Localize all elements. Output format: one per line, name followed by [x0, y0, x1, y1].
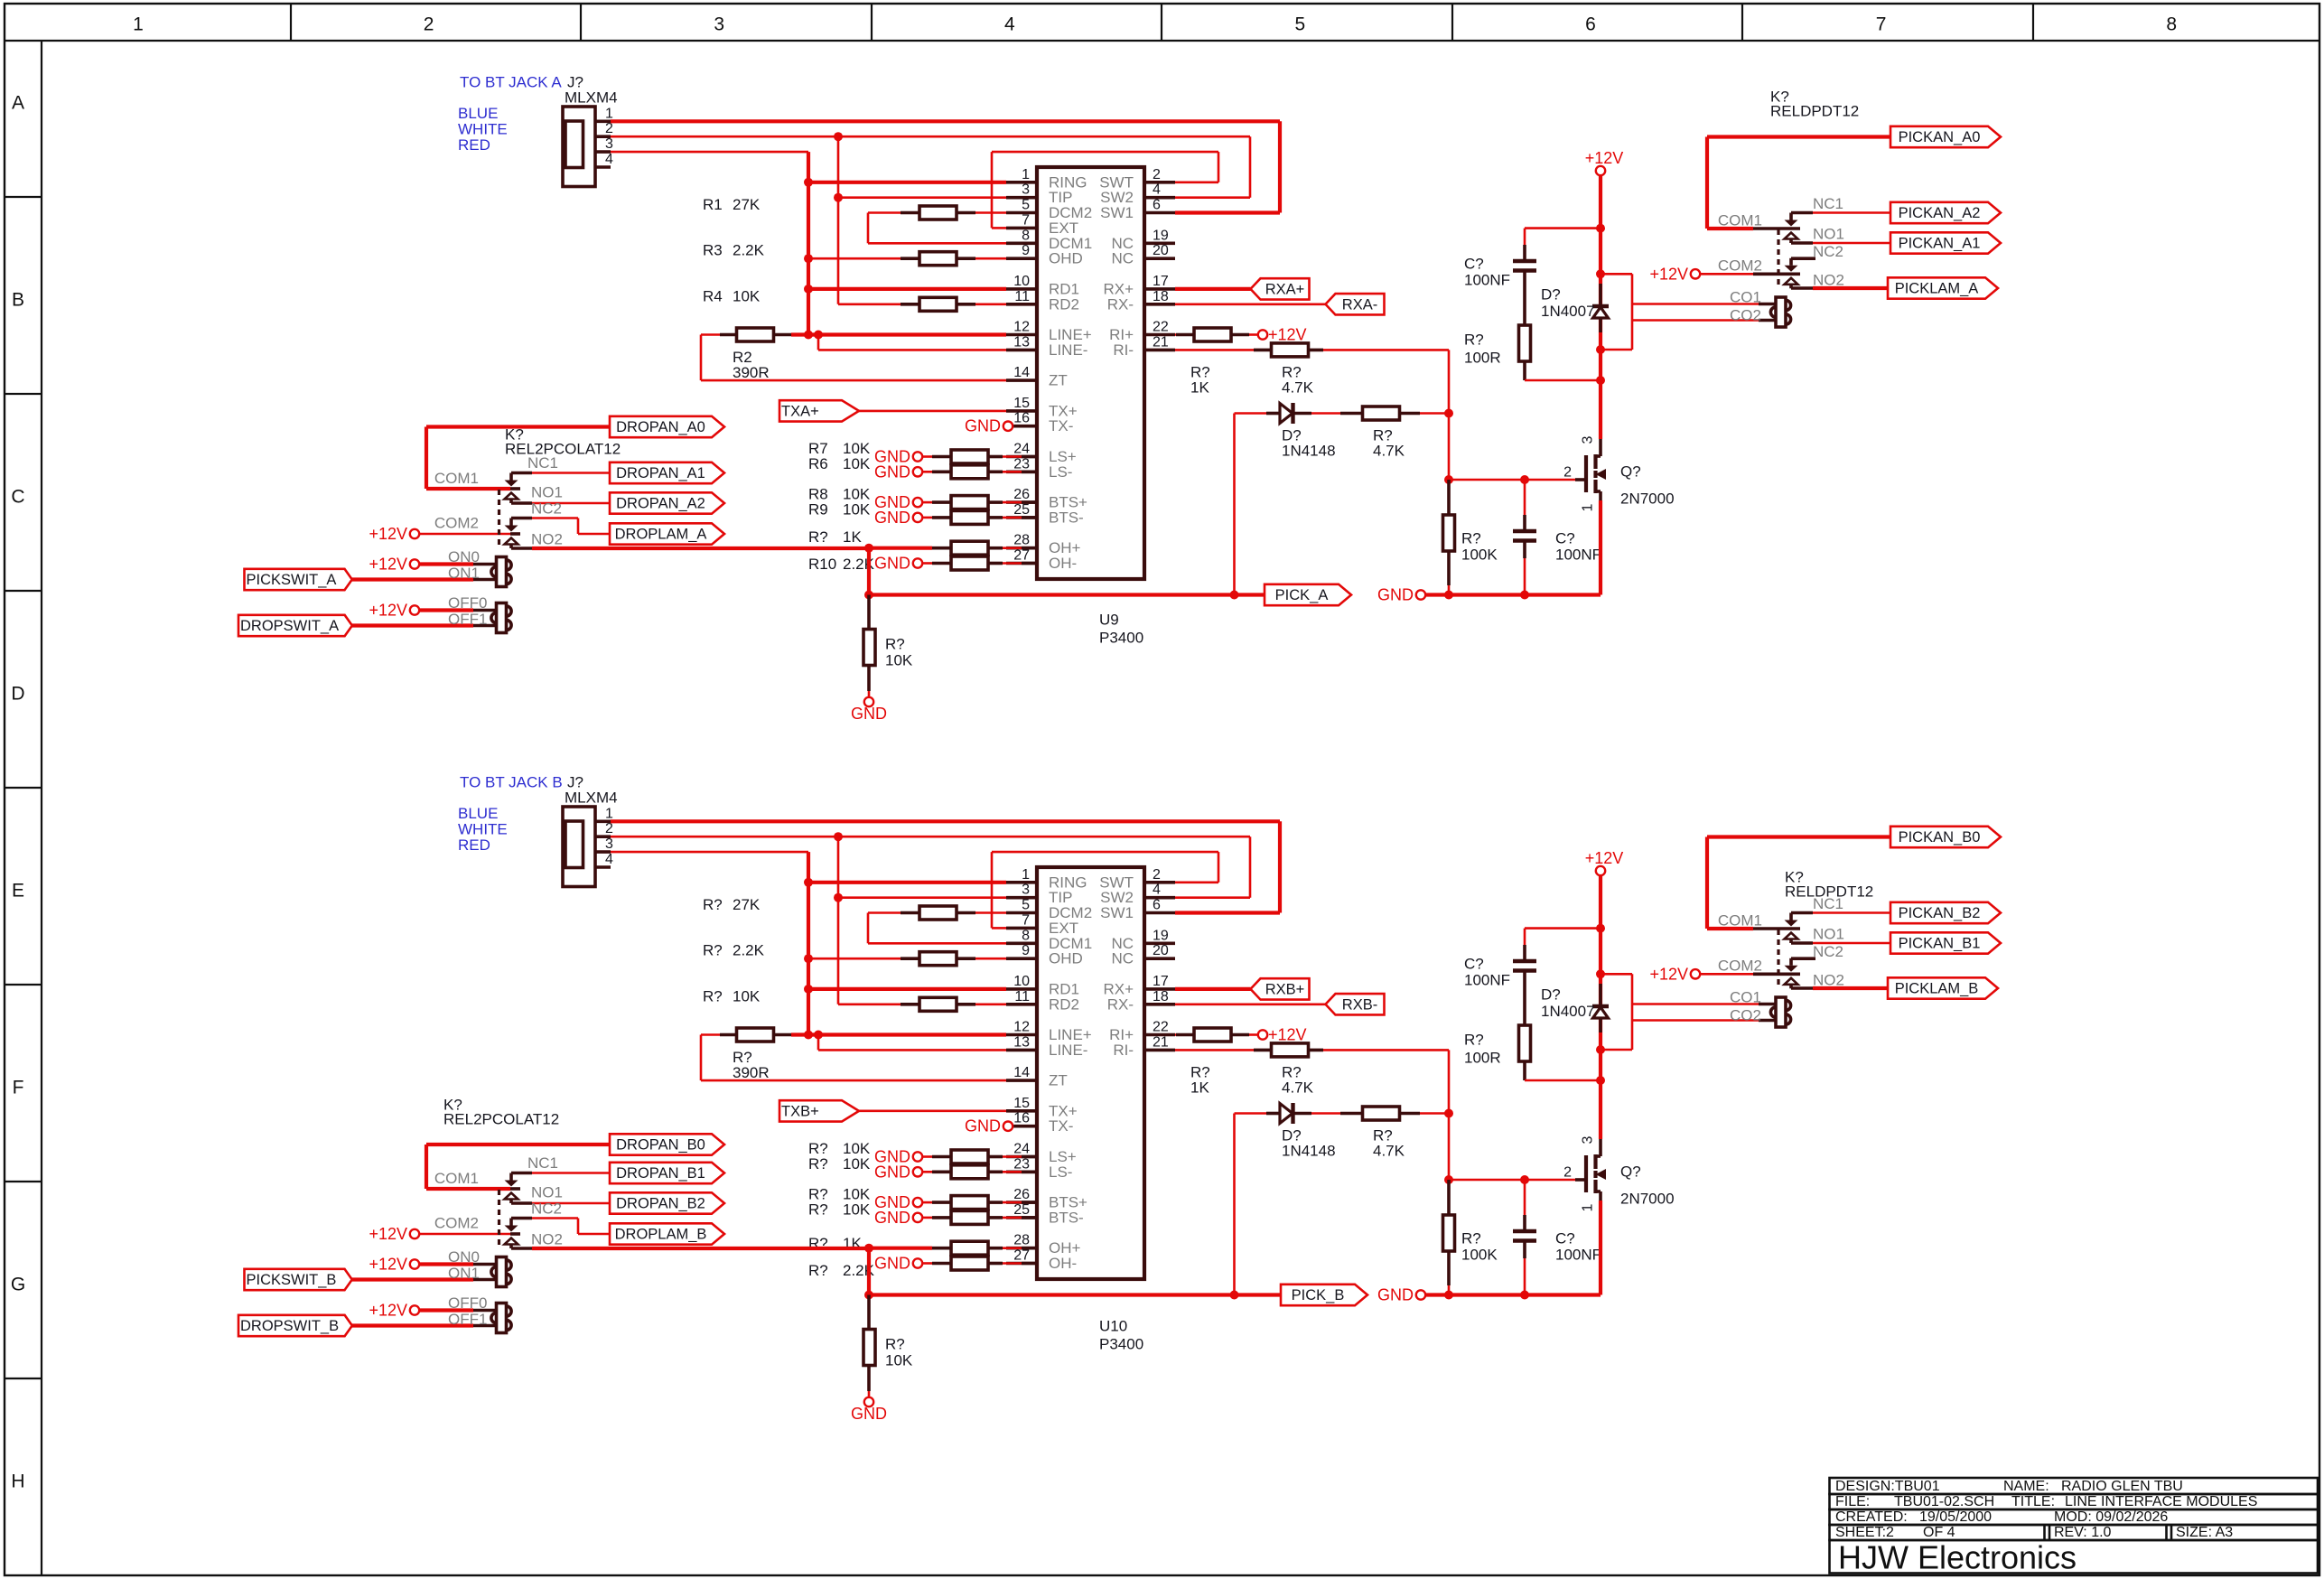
wire node vertical RING/OHD/RD1/LINE+ [807, 852, 810, 1034]
left relay OFF coil [501, 1306, 511, 1316]
svg-text:RD2: RD2 [1049, 995, 1079, 1013]
svg-text:1: 1 [133, 14, 144, 35]
svg-text:18: 18 [1153, 989, 1169, 1004]
svg-text:D?: D? [1541, 286, 1561, 304]
junction 100K to ground [1444, 591, 1453, 600]
resistor R? 100K leads [1447, 480, 1451, 515]
connector pin 1 stub [595, 819, 611, 823]
relay contact armature 1 [1789, 213, 1793, 220]
row tick A [5, 196, 42, 198]
net label RXB- flag [1326, 994, 1385, 1014]
relay contact armature 2 [1789, 958, 1793, 966]
ground below pulldown [864, 697, 873, 706]
IC pin 12 LINE+ stub [1006, 333, 1037, 337]
svg-text:PICKSWIT_B: PICKSWIT_B [247, 1272, 337, 1288]
svg-text:GND: GND [965, 1117, 1001, 1135]
column tick 4 [1161, 4, 1162, 41]
svg-text:R?: R? [808, 1155, 828, 1173]
junction diode branch [1230, 1291, 1239, 1300]
IC pin 13 LINE- stub [1006, 1049, 1037, 1052]
svg-text:3: 3 [605, 836, 613, 852]
ground below pulldown [864, 1397, 873, 1406]
resistor R8 10K body [951, 496, 988, 509]
net label PICKAN_B0 flag [1890, 827, 2001, 847]
svg-text:NC2: NC2 [1813, 243, 1843, 260]
diode D? 1N4007 [1599, 984, 1602, 1006]
resistor R7 10K leads [922, 455, 933, 458]
svg-text:RD2: RD2 [1049, 295, 1079, 313]
svg-text:24: 24 [1013, 442, 1030, 457]
svg-text:DROPAN_A0: DROPAN_A0 [616, 419, 705, 435]
wire to TIP pin3 [838, 896, 1006, 899]
svg-text:E: E [12, 881, 24, 902]
IC pin 27 OH- stub [1006, 562, 1037, 565]
svg-text:390R: 390R [733, 1064, 770, 1081]
svg-text:COM1: COM1 [434, 1170, 479, 1187]
svg-text:TITLE:: TITLE: [2011, 1494, 2055, 1509]
svg-text:R4: R4 [703, 287, 723, 304]
net label TXA+ flag [779, 400, 859, 421]
svg-text:PICKAN_A0: PICKAN_A0 [1899, 129, 1981, 145]
svg-text:10K: 10K [733, 287, 761, 304]
IC pin 5 DCM2 stub [1006, 911, 1037, 915]
junction snubber bottom [1596, 376, 1605, 385]
svg-text:OFF0: OFF0 [448, 1294, 487, 1312]
svg-text:LINE-: LINE- [1049, 341, 1087, 359]
column tick 3 [871, 4, 873, 41]
svg-text:R?: R? [703, 896, 723, 913]
svg-text:9: 9 [1022, 243, 1030, 258]
svg-text:4.7K: 4.7K [1373, 1143, 1405, 1160]
junction OHD branch [804, 254, 813, 263]
net label TXB+ flag [779, 1100, 859, 1121]
IC pin 2 SWT stub [1144, 881, 1175, 884]
svg-text:P3400: P3400 [1099, 630, 1143, 647]
svg-text:DROPAN_A1: DROPAN_A1 [616, 465, 705, 481]
resistor R3 2.2K body [919, 252, 957, 266]
wire RX+ to flag [1175, 987, 1251, 991]
IC pin 22 RI+ stub [1144, 333, 1175, 337]
svg-text:GND: GND [1377, 586, 1414, 604]
svg-text:BTS-: BTS- [1049, 1209, 1084, 1226]
svg-text:RED: RED [458, 836, 490, 854]
svg-text:SW1: SW1 [1100, 904, 1134, 921]
IC pin 28 OH+ stub [1006, 1247, 1037, 1250]
svg-text:PICKAN_A2: PICKAN_A2 [1899, 205, 1981, 221]
svg-text:6: 6 [1153, 198, 1161, 213]
svg-text:NC2: NC2 [1813, 943, 1843, 960]
resistor R9 10K body [951, 510, 988, 524]
net label PICK_B flag [1281, 1285, 1367, 1305]
svg-text:2N7000: 2N7000 [1620, 491, 1675, 508]
svg-text:RED: RED [458, 136, 490, 154]
IC pin 1 RING stub [1006, 181, 1037, 184]
svg-text:21: 21 [1153, 334, 1169, 350]
column tick 7 [2032, 4, 2034, 41]
IC pin 9 OHD stub [1006, 257, 1037, 260]
junction coil CO1 branch [1596, 969, 1605, 978]
svg-text:GND: GND [874, 555, 910, 573]
resistor R? 4.7K on RI- body [1272, 1043, 1309, 1057]
IC pin 8 DCM1 stub [1006, 942, 1037, 946]
relay NO1 lead [1791, 241, 1813, 245]
svg-text:R?: R? [1464, 332, 1484, 349]
wire RI- resistor to gate node vertical [1323, 349, 1449, 351]
wire diode to resistor [1311, 1112, 1340, 1115]
svg-text:TO BT JACK B: TO BT JACK B [460, 774, 563, 791]
wire TX+ to pin15 [859, 410, 1006, 413]
row tick C [5, 590, 42, 592]
relay NO2 lead [1791, 286, 1813, 290]
svg-text:C: C [11, 487, 24, 508]
net label DROPAN_B1 flag [610, 1163, 724, 1183]
left relay NO2 lead [511, 1247, 532, 1250]
junction coil CO1 branch [1596, 269, 1605, 278]
wire NO2 long to OH+ resistor [532, 547, 869, 550]
svg-text:NAME:: NAME: [2003, 1479, 2049, 1494]
resistor R? 4.7K (diode row) leads [1340, 412, 1362, 416]
junction OH+ / pick branch [864, 1244, 873, 1253]
resistor R? 10K body [951, 1150, 988, 1163]
IC pin 25 BTS- stub [1006, 1216, 1037, 1219]
resistor R4 10K body [919, 297, 957, 311]
svg-text:ON0: ON0 [448, 1248, 480, 1266]
column tick 6 [1741, 4, 1743, 41]
net label DROPSWIT_A flag [238, 615, 352, 636]
svg-text:PICKAN_B2: PICKAN_B2 [1899, 905, 1981, 921]
svg-text:10K: 10K [885, 1352, 913, 1369]
net label PICKLAM_B flag [1888, 977, 1998, 998]
svg-text:C?: C? [1555, 1230, 1575, 1247]
junction RD1 [804, 285, 813, 294]
junction gate capacitor [1520, 1175, 1529, 1184]
svg-text:2: 2 [1563, 465, 1572, 481]
wire NC2 to DROPLAM_A [532, 517, 578, 519]
svg-text:3: 3 [605, 136, 613, 152]
relay NC2 lead (unconnected) [1791, 257, 1815, 260]
resistor R? 390R leads [701, 1033, 720, 1036]
svg-text:10K: 10K [843, 1155, 871, 1173]
IC pin 17 RX+ stub [1144, 287, 1175, 291]
svg-text:8: 8 [2166, 14, 2177, 35]
svg-text:P3400: P3400 [1099, 1336, 1143, 1353]
svg-text:WHITE: WHITE [458, 121, 508, 138]
svg-text:17: 17 [1153, 974, 1169, 989]
relay coil CO2 lead [1759, 1019, 1776, 1023]
svg-text:GND: GND [851, 1405, 887, 1423]
IC pin 14 ZT stub [1006, 378, 1037, 382]
svg-text:NC2: NC2 [531, 1201, 562, 1218]
resistor R? 10K body [919, 997, 957, 1011]
junction capacitor to ground [1520, 1291, 1529, 1300]
junction pick row left [864, 591, 873, 600]
svg-text:1K: 1K [1190, 1079, 1209, 1097]
IC pin 10 RD1 stub [1006, 287, 1037, 291]
wire RX+ to flag [1175, 287, 1251, 291]
resistor R? 10K leads [922, 1155, 933, 1158]
junction snubber top [1596, 224, 1605, 233]
svg-text:6: 6 [1153, 898, 1161, 913]
title block row box 1 [1830, 1478, 2319, 1494]
wire +12V to left COM2 [418, 1233, 510, 1236]
svg-text:OH-: OH- [1049, 555, 1077, 572]
junction gate node [1444, 475, 1453, 484]
IC pin 10 RD1 stub [1006, 987, 1037, 991]
junction pick row left [864, 1291, 873, 1300]
resistor R? 27K body [919, 906, 957, 920]
relay mechanical link (dashed) [1777, 930, 1779, 987]
net label DROPLAM_A flag [610, 523, 724, 544]
IC pin 21 RI- stub [1144, 349, 1175, 352]
junction RING [804, 878, 813, 887]
svg-text:2: 2 [605, 121, 613, 136]
svg-text:ON1: ON1 [448, 1265, 480, 1282]
IC pin 13 LINE- stub [1006, 349, 1037, 352]
power +12V at RI+ [1258, 1030, 1267, 1039]
title block row box 4 [1830, 1525, 2319, 1540]
net label DROPSWIT_B flag [238, 1315, 352, 1336]
left relay NO1 lead [511, 501, 532, 505]
svg-text:27: 27 [1013, 1248, 1030, 1264]
capacitor C? 100NF (snubber) plates [1513, 959, 1536, 963]
capacitor C? 100NF (snubber) plates [1513, 259, 1536, 263]
resistor R? 100R leads [1523, 361, 1526, 380]
resistor R? 1K on RI+ body [1194, 1028, 1231, 1042]
connector pin 3 stub [595, 150, 611, 154]
wire jack pin1 to SW1 [611, 119, 1280, 123]
svg-text:+12V: +12V [369, 1256, 407, 1274]
junction diode anode / CO2 [1596, 345, 1605, 354]
resistor R? 4.7K on RI- leads [1254, 349, 1272, 352]
wire RI- to resistor [1175, 349, 1254, 351]
resistor R? 10K pulldown body [863, 630, 875, 666]
svg-text:27K: 27K [733, 896, 761, 913]
svg-text:+12V: +12V [1268, 1026, 1307, 1044]
IC pin 1 RING stub [1006, 881, 1037, 884]
svg-text:DROPSWIT_B: DROPSWIT_B [240, 1318, 339, 1334]
connector pin 3 stub [595, 850, 611, 854]
wire pick row to PICK_A [869, 593, 1265, 596]
svg-text:CO2: CO2 [1730, 307, 1761, 324]
junction diode-row node [1444, 1109, 1453, 1118]
wire NO1 to PICKAN_B1 [1813, 942, 1890, 945]
left relay contact armature 2 [509, 519, 513, 526]
resistor R? 10K body [951, 1165, 988, 1179]
resistor R? 2.2K body [919, 952, 957, 966]
relay mechanical link (dashed) [1777, 229, 1779, 287]
wire NO2 to PICKLAM_B [1813, 986, 1888, 990]
resistor R6 10K leads [922, 471, 933, 473]
relay K? RELDPDT12 coil CO1 lead [1759, 1003, 1776, 1006]
svg-text:5: 5 [1295, 14, 1306, 35]
svg-text:5: 5 [1022, 198, 1030, 213]
net label PICKAN_A0 flag [1890, 126, 2001, 147]
svg-text:R1: R1 [703, 196, 723, 213]
junction LINE+ node [804, 331, 813, 340]
left relay NO2 lead [511, 547, 532, 550]
svg-text:21: 21 [1153, 1034, 1169, 1050]
svg-text:1K: 1K [843, 528, 862, 546]
svg-text:DROPLAM_B: DROPLAM_B [615, 1227, 707, 1243]
wire to resistor R3 left [808, 257, 901, 260]
svg-text:MOD: 09/02/2026: MOD: 09/02/2026 [2054, 1509, 2168, 1525]
resistor R? 1K on OH+ leads [869, 1247, 932, 1250]
relay K? RELDPDT12 coil [1780, 300, 1790, 310]
svg-text:5: 5 [1022, 898, 1030, 913]
svg-text:RELDPDT12: RELDPDT12 [1785, 883, 1873, 901]
svg-text:Q?: Q? [1620, 463, 1641, 481]
wire RI- to resistor [1175, 1049, 1254, 1051]
svg-text:10K: 10K [733, 987, 761, 1004]
connector pin 2 stub [595, 835, 611, 838]
svg-text:PICKLAM_A: PICKLAM_A [1895, 281, 1979, 297]
svg-text:R?: R? [1461, 530, 1481, 547]
svg-text:GND: GND [965, 417, 1001, 435]
svg-text:3: 3 [1581, 435, 1596, 444]
wire +12V to ON0 [418, 562, 473, 565]
wire +12V rail down [1599, 874, 1602, 1080]
svg-text:D: D [11, 684, 24, 705]
svg-text:1: 1 [1581, 503, 1596, 511]
svg-text:TO BT JACK A: TO BT JACK A [460, 74, 562, 91]
net label DROPLAM_B flag [610, 1223, 724, 1244]
svg-text:2: 2 [605, 821, 613, 836]
svg-text:DROPAN_A2: DROPAN_A2 [616, 496, 705, 512]
svg-text:PICKAN_A1: PICKAN_A1 [1899, 236, 1981, 252]
resistor R2 390R body [737, 328, 774, 341]
svg-text:NO1: NO1 [531, 484, 563, 501]
wire jack pin3 to node [611, 151, 808, 154]
junction LINE+ / LINE- branch [814, 1031, 823, 1040]
wire NC1 to PICKAN_A2 [1813, 211, 1890, 214]
svg-text:19: 19 [1153, 228, 1169, 243]
wire +12V rail down [1599, 174, 1602, 380]
column tick 1 [290, 4, 292, 41]
left relay COM2 lead [510, 532, 520, 536]
svg-text:C?: C? [1555, 530, 1575, 547]
junction snubber top [1596, 924, 1605, 933]
svg-text:GND: GND [874, 1209, 910, 1227]
svg-text:R?: R? [808, 1262, 828, 1279]
svg-text:R?: R? [1464, 1032, 1484, 1049]
IC pin 17 RX+ stub [1144, 987, 1175, 991]
IC pin 27 OH- stub [1006, 1262, 1037, 1266]
wire R2 left to ZT pin14 [700, 1035, 703, 1081]
wire pick row to PICK_B [869, 1293, 1281, 1296]
IC pin 20 NC stub [1144, 257, 1175, 260]
svg-text:4: 4 [1153, 182, 1161, 198]
resistor R2 390R leads [701, 333, 720, 336]
IC pin 24 LS+ stub [1006, 1155, 1037, 1159]
svg-text:16: 16 [1013, 411, 1030, 426]
svg-text:PICK_A: PICK_A [1275, 587, 1329, 603]
net label PICKAN_A1 flag [1890, 232, 2001, 253]
IC pin 7 EXT stub [1006, 227, 1037, 230]
left relay contact armature 1 [509, 473, 513, 481]
left relay NC1 lead [511, 1172, 532, 1175]
svg-text:4.7K: 4.7K [1282, 1079, 1314, 1097]
svg-text:LS-: LS- [1049, 1163, 1072, 1181]
left reference band line [41, 41, 42, 1575]
row tick B [5, 393, 42, 395]
resistor R? 10K leads [922, 1217, 933, 1219]
svg-text:28: 28 [1013, 533, 1030, 548]
resistor R? 100K body [1443, 1215, 1455, 1251]
svg-text:CO1: CO1 [1730, 989, 1761, 1006]
wire +12V to left COM2 [418, 533, 510, 536]
diode D? 1N4148 [1266, 412, 1280, 416]
junction diode-row node [1444, 409, 1453, 418]
svg-text:3: 3 [1581, 1135, 1596, 1144]
net label PICKAN_A2 flag [1890, 202, 2001, 223]
transistor Q? 2N7000 [1599, 1080, 1602, 1139]
relay K? RELDPDT12 coil CO1 lead [1759, 303, 1776, 306]
relay contact COM1 lead [1753, 927, 1800, 930]
svg-text:100NF: 100NF [1555, 547, 1601, 564]
svg-text:3: 3 [1022, 883, 1030, 898]
junction gate node [1444, 1175, 1453, 1184]
svg-text:10: 10 [1013, 274, 1030, 289]
svg-text:10: 10 [1013, 974, 1030, 989]
svg-text:PICK_B: PICK_B [1292, 1287, 1345, 1303]
svg-text:15: 15 [1013, 1096, 1030, 1111]
wire gate node to transistor gate [1449, 1179, 1575, 1182]
svg-text:+12V: +12V [369, 556, 407, 574]
resistor R? 1K on RI+ body [1194, 328, 1231, 341]
left relay contact armature 2 [509, 1219, 513, 1226]
svg-text:NO1: NO1 [531, 1184, 563, 1201]
IC pin 8 DCM1 stub [1006, 241, 1037, 245]
svg-text:COM2: COM2 [1718, 958, 1762, 975]
row tick G [5, 1378, 42, 1379]
wire NC1 to DROPAN_A1 [532, 472, 610, 474]
capacitor C? 100NF (gate) plates [1513, 529, 1536, 533]
svg-text:SW1: SW1 [1100, 204, 1134, 221]
svg-text:20: 20 [1153, 243, 1169, 258]
svg-text:6: 6 [1585, 14, 1596, 35]
resistor R10 2.2K body [951, 556, 988, 570]
svg-text:23: 23 [1013, 1156, 1030, 1172]
wire PICKSWIT_B to ON1 [352, 1277, 473, 1281]
wire RI- resistor to gate node vertical [1323, 1049, 1449, 1051]
IC pin 12 LINE+ stub [1006, 1033, 1037, 1037]
connector pin 1 stub [595, 120, 611, 124]
IC pin 3 TIP stub [1006, 896, 1037, 900]
svg-text:20: 20 [1153, 943, 1169, 958]
wire DROPAN_A0 to COM1 [426, 425, 610, 428]
resistor R? 10K leads [922, 1201, 933, 1204]
svg-text:Q?: Q? [1620, 1163, 1641, 1181]
svg-text:+12V: +12V [369, 525, 407, 543]
svg-text:4.7K: 4.7K [1373, 443, 1405, 460]
svg-text:1N4007: 1N4007 [1541, 1003, 1595, 1020]
IC pin 25 BTS- stub [1006, 516, 1037, 519]
svg-text:DROPAN_B1: DROPAN_B1 [616, 1165, 705, 1182]
svg-text:DROPSWIT_A: DROPSWIT_A [240, 618, 339, 634]
wire coil bracket [1601, 973, 1632, 976]
wire PICKAN_A0 to COM1 [1707, 135, 1890, 138]
wire LINE- jog to pin13 [817, 1035, 820, 1051]
IC pin 4 SW2 stub [1144, 896, 1175, 900]
wire +12V to COM2 [1699, 273, 1753, 276]
svg-text:DROPAN_B0: DROPAN_B0 [616, 1137, 705, 1154]
net label PICKLAM_A flag [1888, 277, 1998, 298]
svg-text:A: A [12, 93, 24, 114]
svg-text:RX-: RX- [1107, 295, 1134, 313]
resistor R? 390R body [737, 1028, 774, 1042]
svg-text:1N4148: 1N4148 [1282, 1143, 1336, 1160]
junction jack pin2 / TIP branch [834, 832, 843, 841]
